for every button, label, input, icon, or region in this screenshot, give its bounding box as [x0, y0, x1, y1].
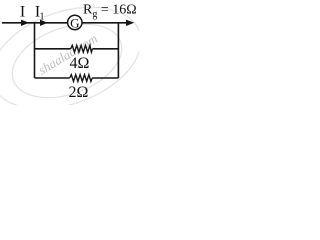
wire branch1 left: [35, 48, 71, 50]
svg-text:I: I: [20, 3, 25, 20]
wire main right segment: [82, 22, 127, 24]
svg-text:4Ω: 4Ω: [70, 55, 90, 72]
resistor 2ohm zigzag: [70, 75, 93, 82]
wire right rail: [117, 23, 119, 78]
galvanometer G circle: [68, 15, 82, 29]
wire main left segment: [2, 22, 68, 24]
svg-text:2Ω: 2Ω: [69, 84, 89, 101]
svg-text:Rg = 16Ω: Rg = 16Ω: [83, 3, 137, 21]
svg-text:1: 1: [40, 12, 45, 23]
wire left rail: [34, 23, 36, 78]
arrow I1: [40, 20, 48, 26]
wire branch1 right: [93, 48, 119, 50]
svg-text:G: G: [70, 15, 79, 30]
watermark swoosh ellipse: [0, 0, 155, 128]
svg-text:shaalaa.com: shaalaa.com: [36, 31, 100, 78]
resistor 4ohm zigzag: [71, 45, 93, 52]
wire branch2 right: [92, 77, 118, 79]
arrow output right: [126, 20, 134, 26]
wire branch2 left: [35, 77, 70, 79]
arrow I: [21, 20, 29, 26]
